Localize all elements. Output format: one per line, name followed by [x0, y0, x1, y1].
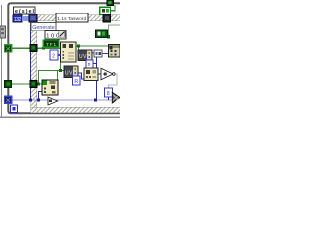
- svg-text:TF1: TF1: [46, 42, 56, 47]
- svg-text:UV: UV: [79, 54, 87, 60]
- wire: blue conversion to keypad: [58, 54, 61, 56]
- elapsed icon C2: [42, 80, 58, 95]
- or gate triangle 1: [101, 68, 113, 80]
- conversion box B: [105, 88, 113, 97]
- wire: blue drop chain: [93, 57, 101, 100]
- constant box 100-53: [45, 31, 66, 40]
- outer cropped structure border: [0, 5, 120, 117]
- wire: B box stub: [108, 97, 110, 100]
- wire: blue row to right icon: [92, 52, 109, 55]
- tunnel on frame top: [107, 0, 114, 5]
- icon UV 2: [64, 66, 78, 78]
- case structure frame: [8, 3, 120, 113]
- label box top-left: [14, 7, 36, 14]
- small blue box bottom-left: [11, 105, 18, 113]
- junction green dot: [107, 35, 110, 38]
- svg-text:100: 100: [46, 34, 59, 40]
- svg-text:R: R: [74, 79, 78, 85]
- wire: green main mid: [76, 46, 109, 50]
- tunnel T2 on while top border: [103, 14, 111, 22]
- while loop top border: [31, 15, 121, 21]
- while loop left border: [31, 15, 37, 113]
- junction green: [42, 47, 45, 50]
- wire: blue icon G out: [78, 73, 84, 79]
- label Generate: [31, 23, 56, 31]
- conversion box 2: [50, 50, 58, 60]
- junction green: [37, 83, 40, 86]
- wire: lavender main bottom: [12, 99, 113, 101]
- wire: boolean green 1: [12, 47, 61, 49]
- gray box cut by left edge: [0, 26, 6, 38]
- TF boolean box: [43, 40, 59, 47]
- conversion box pi: [86, 60, 93, 68]
- keypad blue stub: [58, 54, 61, 56]
- icon UV 1: [78, 50, 92, 61]
- wire: blue icon C out: [98, 73, 101, 75]
- wire: blue L from elapsed icon: [39, 92, 43, 101]
- icon C: [84, 68, 98, 81]
- junction blue: [37, 99, 40, 102]
- svg-text:n: n: [88, 62, 91, 68]
- junction green: [59, 69, 62, 72]
- svg-text:8: 8: [107, 91, 110, 97]
- numeric constant I32: [13, 15, 22, 22]
- junction green: [77, 45, 80, 48]
- green tunnel 1 on frame: [5, 45, 12, 52]
- junction blue: [29, 99, 32, 102]
- tunnel on while left border 2: [30, 81, 37, 88]
- small box H: [94, 50, 102, 57]
- svg-text:132: 132: [14, 17, 22, 23]
- tunnel on while left border 1: [30, 45, 37, 52]
- wire: pale green right: [108, 25, 120, 37]
- junction blue: [94, 99, 97, 102]
- green tunnel 2 on frame: [5, 81, 12, 88]
- wire: boolean green 2: [12, 83, 42, 85]
- boolean Dr box: [96, 30, 108, 38]
- while loop bottom border: [31, 107, 121, 113]
- conversion box R: [73, 76, 81, 85]
- comparison triangle 3: [48, 97, 58, 105]
- wire: pale feedback loop from triangle: [109, 74, 118, 88]
- while loop subdiagram label: [56, 13, 88, 22]
- wire: TF constant to tunnel: [111, 5, 115, 11]
- TF constant top right: [100, 7, 111, 14]
- tunnel on while corner: [29, 14, 37, 22]
- icon D right edge: [109, 45, 121, 58]
- wire: green branch vertical: [38, 62, 64, 84]
- svg-text:2: 2: [52, 54, 55, 60]
- dark triangle 2 right edge: [112, 92, 120, 103]
- keypad icon: [61, 42, 77, 62]
- svg-text:1.1s Tasword: 1.1s Tasword: [57, 16, 86, 22]
- blue tunnel on frame: [5, 96, 12, 103]
- wire: blue vertical from top tunnel: [30, 22, 32, 100]
- junction blue: [95, 73, 98, 76]
